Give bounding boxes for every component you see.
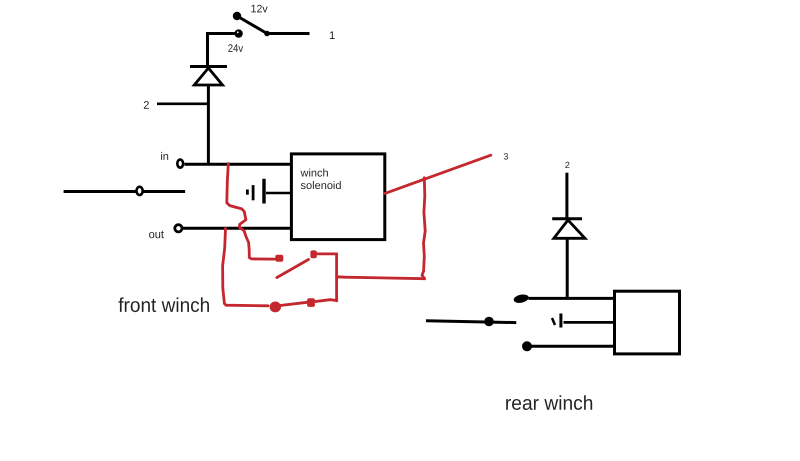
svg-text:in: in — [160, 151, 169, 163]
svg-text:solenoid: solenoid — [301, 180, 342, 192]
svg-text:winch: winch — [300, 167, 329, 179]
svg-text:12v: 12v — [251, 3, 268, 15]
svg-text:front winch: front winch — [118, 295, 210, 317]
svg-text:1: 1 — [329, 30, 335, 42]
svg-text:rear winch: rear winch — [505, 393, 594, 415]
svg-text:2: 2 — [143, 100, 149, 112]
svg-text:3: 3 — [503, 152, 508, 162]
svg-text:24v: 24v — [228, 43, 244, 55]
svg-text:2: 2 — [565, 160, 570, 170]
svg-text:out: out — [149, 229, 165, 241]
